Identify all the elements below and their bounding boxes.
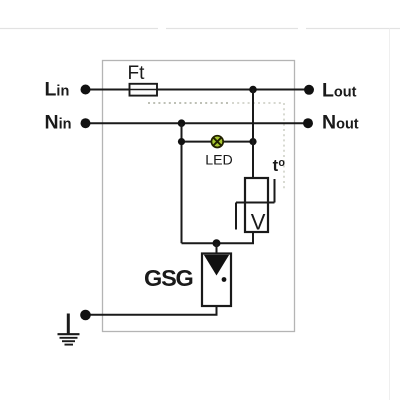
enclosure box [103,61,295,332]
wire N line [86,122,309,124]
svg-text:Ft: Ft [128,63,146,84]
wire N branch down [181,123,183,243]
node N junction [178,119,186,127]
varistor V body [245,178,268,232]
faint page rule right [389,29,391,400]
fuse Ft [130,84,158,96]
wire GSG to earth terminal [86,306,217,315]
wire junction to GSG [216,243,218,254]
wire L line [86,89,310,91]
node GSG junction [213,239,221,247]
terminal Lin [81,85,91,95]
thermal disconnect divider [236,202,275,204]
svg-text:o: o [278,157,285,169]
disconnect right electrode [274,179,276,203]
wire LED branch [182,141,254,143]
terminal Lout [304,85,314,95]
faint page rule top [0,28,400,30]
node L junction [249,86,257,94]
terminal Nout [303,118,313,128]
earth ground symbol [58,314,80,345]
svg-text:LED: LED [205,153,233,169]
terminal earth [80,310,91,321]
spark gap GSG [202,254,231,307]
terminal Nin [81,118,91,128]
disconnect left electrode [235,203,237,230]
svg-text:GSG: GSG [144,265,193,291]
dashed linkage Ft to t [148,102,230,104]
wire L branch down to varistor [252,90,254,180]
LED indicator lamp [211,136,223,148]
svg-text:V: V [251,210,266,235]
node LED branch junction [178,138,185,145]
wire varistor bottom [182,231,254,243]
node LED right junction [249,138,256,145]
